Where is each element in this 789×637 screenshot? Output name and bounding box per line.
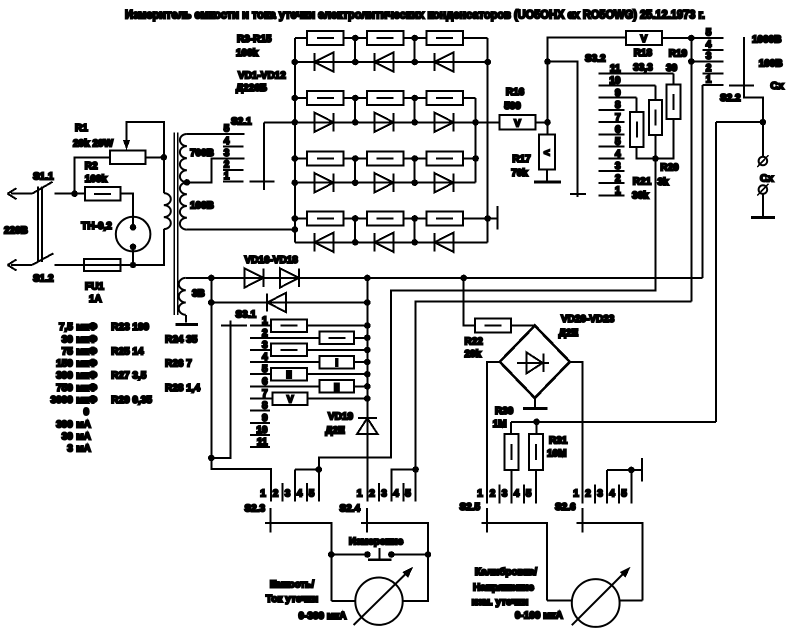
svg-text:S2.1: S2.1 (231, 117, 252, 128)
meter PA1 0-300uA (355, 578, 402, 625)
S3.1 position 8 contact (250, 410, 270, 412)
S3.1 wiper (211, 321, 230, 458)
S3.2 position 7 contact (599, 121, 625, 123)
svg-text:5: 5 (526, 489, 532, 500)
svg-text:мкФ: мкФ (76, 371, 97, 382)
resistor R29 (position 7) (273, 392, 308, 405)
svg-text:20k 20W: 20k 20W (73, 139, 114, 150)
junction 700V/100V tap (184, 179, 191, 186)
wire bridge left to S2.5 (487, 362, 500, 504)
row4 output terminal (488, 217, 498, 219)
switch S1.1 arrow (11, 193, 32, 195)
svg-text:R20: R20 (660, 163, 679, 174)
diode row2 #1 (315, 113, 334, 132)
diode row2 #3 (435, 113, 454, 132)
HV ladder right bus (487, 38, 489, 242)
svg-text:7,5: 7,5 (59, 322, 73, 333)
ground below 3V winding (175, 323, 197, 326)
svg-text:150: 150 (56, 359, 73, 370)
svg-text:2: 2 (490, 489, 496, 500)
wire 700V tap to S2.1 position 3 (187, 159, 245, 183)
S2.1 position 2 contact (223, 169, 243, 171)
wire node B up to R18 meter box (548, 37, 626, 122)
svg-text:изм. утечки: изм. утечки (472, 597, 529, 608)
S3.1 position 11 contact (250, 446, 270, 448)
meter PA2 0-100uA (572, 579, 620, 627)
svg-text:500: 500 (504, 101, 521, 112)
svg-text:5: 5 (615, 137, 621, 148)
S3.1 position 9 contact (250, 422, 270, 424)
svg-text:4: 4 (609, 489, 615, 500)
resistor row4 #2 (367, 212, 403, 226)
wire R17 to ground (546, 170, 548, 181)
R1 wiper arrow (127, 122, 164, 157)
svg-text:0-300 мкА: 0-300 мкА (299, 611, 347, 622)
right bus junctions (484, 59, 491, 66)
bridge VD20-VD23 (500, 326, 570, 398)
S2.6 pos3-pos5 connector (607, 469, 642, 471)
S3.2 position 9 contact (599, 97, 637, 99)
wire S2.3 wiper to meter1 (331, 600, 355, 602)
svg-text:S3.2: S3.2 (585, 54, 606, 65)
svg-text:2: 2 (262, 328, 268, 339)
S3.2 position 11 contact (599, 72, 674, 74)
svg-text:9: 9 (615, 88, 621, 99)
svg-text:Ток утечки: Ток утечки (266, 594, 318, 605)
terminal below bridge (523, 407, 548, 410)
svg-text:VD16-VD18: VD16-VD18 (245, 255, 299, 266)
S3.2 wiper bar (570, 193, 586, 195)
svg-text:75: 75 (62, 346, 74, 357)
svg-text:8: 8 (262, 401, 268, 412)
resistor row2 #1 (307, 91, 343, 105)
wire R2 to neon lamp (120, 194, 133, 228)
svg-text:700В: 700В (190, 148, 214, 159)
S1 mechanical link (37, 187, 39, 263)
diode VD19 (358, 417, 377, 419)
left measure bus (211, 278, 271, 502)
svg-text:V: V (287, 395, 294, 406)
wire 100V winding to ladder (187, 229, 295, 231)
S2.4 wiper (361, 523, 428, 555)
svg-text:мА: мА (76, 431, 91, 442)
svg-text:<: < (544, 148, 550, 159)
svg-text:4: 4 (262, 352, 268, 363)
diode VD17 (280, 268, 299, 287)
svg-text:33,3: 33,3 (633, 63, 653, 74)
S3.2 position 8 contact (599, 109, 625, 111)
S3.2 position 2 contact (599, 182, 625, 184)
resistor row1 #3 (427, 31, 463, 45)
row2 right link (475, 98, 477, 183)
diode row1 #1 (315, 52, 334, 71)
row1 resistor chain wire (295, 37, 307, 39)
S3.1 position 7 contact (250, 398, 273, 400)
svg-text:R19: R19 (669, 49, 688, 60)
wire position 3 to bus (307, 349, 368, 351)
wire S2.6 wiper to meter2 right (620, 600, 643, 602)
junction 3V/VD16 (208, 275, 215, 282)
svg-text:3: 3 (597, 489, 603, 500)
wire position 7 to bus (308, 398, 368, 400)
wire Cx node to bridge line (716, 121, 763, 123)
S3.2 position 5 contact (599, 146, 625, 148)
svg-text:3000: 3000 (51, 395, 74, 406)
resistor R22 (464, 278, 475, 326)
svg-text:мА: мА (76, 419, 91, 430)
svg-text:S2.2: S2.2 (720, 93, 741, 104)
svg-text:мкФ: мкФ (76, 346, 97, 357)
S3.1 position 3 contact (250, 349, 271, 351)
transformer core (174, 133, 177, 316)
svg-text:II: II (286, 370, 292, 381)
resistor row1 #1 (307, 31, 343, 45)
wire R21 bottom (637, 147, 656, 159)
S2.5 wiper (481, 523, 547, 601)
diode row3 #2 (375, 173, 394, 192)
svg-text:Измерение: Измерение (349, 537, 404, 548)
row1 junction links (354, 38, 356, 62)
svg-text:мкФ: мкФ (76, 359, 97, 370)
svg-text:1: 1 (615, 186, 621, 197)
svg-text:S1.2: S1.2 (33, 274, 54, 285)
svg-text:100k: 100k (85, 174, 108, 185)
junction R1 right (161, 154, 168, 161)
S2.2 position 1 contact (703, 84, 724, 86)
junction R19/R20/R21 (652, 155, 659, 162)
left bus junctions (292, 59, 299, 66)
svg-text:R18: R18 (634, 48, 653, 59)
node B junction (544, 119, 551, 126)
wire position 2 to bus (354, 337, 368, 339)
wire V-node to S2.4 position5 (416, 301, 692, 501)
wire position 1 to bus (307, 325, 368, 327)
svg-text:10: 10 (609, 76, 621, 87)
row4 junction links (354, 218, 356, 242)
svg-text:Емкость/: Емкость/ (270, 580, 315, 591)
transformer winding 700V (180, 134, 187, 182)
resistor R16 (500, 115, 536, 129)
svg-text:5: 5 (309, 489, 315, 500)
svg-text:0-100 мкА: 0-100 мкА (515, 611, 563, 622)
diode row1 #3 (435, 52, 454, 71)
svg-text:VD1-VD12: VD1-VD12 (238, 71, 286, 82)
switch S1.2 blade (32, 253, 54, 265)
svg-text:2: 2 (273, 489, 279, 500)
diode row4 #2 (375, 233, 394, 252)
wire R19 bottom (655, 119, 673, 159)
resistor R19 (672, 73, 674, 84)
junction S2.2 position 3 (688, 58, 695, 65)
svg-text:R29 0,35: R29 0,35 (111, 395, 152, 406)
wire R18 output down (690, 38, 692, 301)
S2.1 position 1 contact (223, 181, 243, 183)
svg-text:Cx: Cx (760, 173, 774, 185)
svg-text:220В: 220В (4, 226, 28, 237)
svg-text:8: 8 (615, 100, 621, 111)
svg-text:3: 3 (285, 489, 291, 500)
junction Cx node (760, 119, 767, 126)
S2.6 wiper (577, 523, 643, 601)
svg-text:FU1: FU1 (85, 282, 104, 293)
resistor row4 #3 (427, 212, 463, 226)
svg-text:100В: 100В (759, 58, 783, 69)
svg-text:V: V (514, 118, 521, 129)
svg-text:36k: 36k (632, 191, 649, 202)
resistor R25 (position 3) (271, 344, 307, 357)
Cx terminal top (762, 122, 764, 157)
wire R1 left leg (75, 157, 111, 193)
svg-text:300: 300 (56, 419, 73, 430)
S2.4 contacts (378, 483, 380, 502)
bridge inner diode (517, 362, 549, 364)
node line R30/R31 (511, 421, 716, 423)
resistor row2 #2 (367, 91, 403, 105)
VD18 line (211, 302, 367, 304)
HV ladder left bus (294, 38, 296, 242)
wire R18 to S2.2 position 5 (662, 37, 724, 39)
wire bridge bottom (534, 398, 536, 407)
svg-text:3В: 3В (192, 289, 205, 300)
svg-text:1: 1 (260, 489, 266, 500)
Cx terminal bottom (759, 185, 768, 194)
resistor row4 #1 (307, 212, 343, 226)
resistor R24 (position 2) (320, 332, 354, 345)
svg-text:2: 2 (585, 489, 591, 500)
svg-text:2: 2 (615, 173, 621, 184)
svg-text:II: II (334, 382, 340, 393)
svg-text:Измеритель емкости и тока утеч: Измеритель емкости и тока утечки электро… (125, 10, 705, 22)
svg-text:9: 9 (262, 413, 268, 424)
resistor R31 (536, 422, 538, 434)
svg-text:0: 0 (83, 407, 89, 418)
wire R22 to bridge (511, 325, 535, 327)
svg-text:3: 3 (224, 148, 230, 159)
svg-text:4: 4 (706, 39, 712, 50)
svg-text:R23 190: R23 190 (111, 322, 149, 333)
svg-text:7: 7 (615, 112, 621, 123)
svg-text:S1.1: S1.1 (33, 172, 54, 183)
svg-text:R3-R15: R3-R15 (237, 34, 272, 45)
svg-text:3: 3 (67, 444, 73, 455)
S2.5 contacts (498, 485, 500, 504)
S2.4 position3 connector (392, 470, 416, 502)
S3.1 position 6 contact (250, 385, 320, 387)
svg-text:Cx: Cx (770, 80, 784, 92)
svg-text:4: 4 (514, 489, 520, 500)
diode VD16 (244, 268, 263, 287)
S2.3 pos3-pos5 connector (295, 469, 319, 471)
svg-text:S2.4: S2.4 (340, 504, 361, 515)
wire to S3.2 wiper (548, 62, 578, 197)
svg-text:1: 1 (357, 489, 363, 500)
S2.1 wiper (263, 122, 265, 190)
svg-text:5: 5 (621, 489, 627, 500)
wire position 4 to bus (354, 361, 368, 363)
svg-text:I: I (335, 358, 338, 369)
svg-text:4: 4 (297, 489, 303, 500)
svg-text:1M: 1M (493, 419, 507, 430)
S2.2 position 4 contact (703, 49, 724, 51)
svg-text:70k: 70k (511, 168, 528, 179)
resistor R27 (position 5) (271, 368, 307, 381)
S3.2 position 6 contact (599, 133, 625, 135)
svg-text:R17: R17 (512, 154, 531, 165)
wire S1.2 to transformer primary (55, 229, 164, 265)
diode row4 #3 (435, 233, 454, 252)
resistor R1 (110, 151, 145, 165)
resistor row3 #1 (307, 152, 343, 166)
resistor row3 #3 (427, 152, 463, 166)
S3.2 position 4 contact (599, 158, 625, 160)
svg-text:10M: 10M (547, 449, 566, 460)
resistor R17 (547, 122, 549, 134)
svg-text:Калибровка/: Калибровка/ (475, 566, 537, 578)
row2 junction links (354, 98, 356, 122)
S2.1 position 4 contact (223, 145, 243, 147)
svg-text:6: 6 (262, 376, 268, 387)
S3.2 position 10 contact (599, 85, 656, 87)
S2.2 position 2 contact (703, 73, 724, 75)
junction S2.4 pos3/pos5 (412, 466, 419, 473)
S3.2 position 1 contact (599, 194, 625, 196)
wire neon lamp to fuse line (132, 247, 134, 265)
svg-text:S2.5: S2.5 (460, 502, 481, 513)
wire R20 node down and left (319, 135, 656, 502)
fuse FU1 (84, 259, 120, 271)
svg-text:300: 300 (56, 371, 73, 382)
resistor row2 #3 (427, 91, 463, 105)
svg-text:1A: 1A (89, 294, 102, 305)
wire S2.5 wiper to meter2 (547, 600, 572, 602)
S2.3 contacts (282, 483, 284, 502)
svg-text:100В: 100В (190, 201, 214, 212)
S3.1 position 5 contact (250, 373, 271, 375)
resistor R26 (position 4) (320, 356, 354, 369)
svg-text:3: 3 (615, 161, 621, 172)
svg-text:мкФ: мкФ (76, 334, 97, 345)
junction S3.1 wiper tap (208, 455, 215, 462)
junction R31 top (533, 419, 540, 426)
wire S1.1 to R2 node (55, 193, 85, 195)
svg-text:мкФ: мкФ (76, 322, 97, 333)
svg-text:Д2Е: Д2Е (559, 328, 579, 339)
resistor row1 #2 (367, 31, 403, 45)
svg-text:R27 3,5: R27 3,5 (111, 371, 146, 382)
svg-text:R1: R1 (75, 123, 88, 134)
resistor R23 (position 1) (271, 319, 307, 332)
svg-text:5: 5 (262, 364, 268, 375)
row3 resistor chain wire (295, 158, 307, 160)
node A junction R2/S1.1/R1 (71, 190, 78, 197)
row3 diode line (295, 182, 476, 184)
svg-text:1: 1 (573, 489, 579, 500)
junction R18 output (688, 35, 695, 42)
svg-text:3: 3 (262, 340, 268, 351)
svg-text:4: 4 (393, 489, 399, 500)
svg-text:мА: мА (76, 444, 91, 455)
svg-text:Напряжение: Напряжение (473, 583, 534, 594)
svg-text:V: V (640, 34, 647, 45)
junction VD18 left (208, 299, 215, 306)
svg-text:2: 2 (369, 489, 375, 500)
S2.3 wiper (265, 523, 332, 601)
diode row3 #1 (315, 173, 334, 192)
svg-text:VD19: VD19 (328, 412, 353, 423)
wire 700V top to S2.1 position 5 (187, 133, 244, 135)
svg-text:30: 30 (62, 431, 74, 442)
svg-text:5: 5 (224, 124, 230, 135)
svg-text:R24 35: R24 35 (165, 334, 198, 345)
svg-text:20k: 20k (465, 349, 482, 360)
S3.2 position 3 contact (599, 170, 625, 172)
wire pushbutton to meter1 right (403, 555, 428, 602)
svg-text:1000В: 1000В (752, 35, 781, 46)
resistor R28 (position 6) (320, 380, 354, 393)
svg-text:1: 1 (706, 75, 712, 86)
neon lamp TH-0,2 (116, 217, 151, 252)
junction fuse line (130, 262, 137, 269)
resistor R21 (636, 98, 638, 113)
pushbutton actuator (379, 548, 381, 560)
S3.1 position 4 contact (250, 361, 320, 363)
S2.6 output terminal (641, 458, 643, 482)
svg-text:2: 2 (706, 63, 712, 74)
junction S3.2 branch (544, 58, 551, 65)
svg-text:2: 2 (224, 160, 230, 171)
S2.2 wiper (744, 37, 763, 122)
wire position 5 to bus (307, 373, 368, 375)
svg-text:3k: 3k (658, 177, 670, 188)
svg-text:3: 3 (381, 489, 387, 500)
svg-text:R28 1,4: R28 1,4 (165, 383, 200, 394)
resistor R2 (85, 187, 121, 201)
meter box R18 (626, 31, 662, 45)
ground below Cx terminal (751, 216, 775, 219)
row4 resistor chain wire (295, 217, 307, 219)
resistor R30 (510, 422, 512, 434)
resistor row3 #2 (367, 152, 403, 166)
row2 resistor chain wire (295, 97, 307, 99)
svg-text:R25 14: R25 14 (111, 346, 144, 357)
row3 junction links (354, 159, 356, 183)
svg-text:R30: R30 (495, 406, 514, 417)
svg-text:R16: R16 (506, 87, 525, 98)
S3.1 position 1 contact (250, 325, 271, 327)
svg-text:5: 5 (405, 489, 411, 500)
transformer winding 100V (180, 182, 187, 229)
wire R1 right leg (145, 156, 164, 158)
transformer primary winding (163, 157, 165, 193)
row1 diode line (295, 61, 488, 63)
svg-text:R21: R21 (633, 177, 652, 188)
S2.6 contacts (594, 485, 596, 504)
svg-text:10: 10 (256, 425, 268, 436)
svg-text:Д226Б: Д226Б (236, 83, 267, 94)
svg-text:11: 11 (610, 64, 621, 75)
resistor R20 (654, 86, 656, 100)
transformer winding 3V (179, 278, 186, 315)
svg-text:R22: R22 (465, 337, 484, 348)
diode row2 #2 (375, 113, 394, 132)
svg-text:30: 30 (62, 334, 74, 345)
svg-text:1: 1 (477, 489, 483, 500)
ground below R17 (534, 181, 561, 184)
diode row1 #2 (375, 52, 394, 71)
row2 diode line (264, 121, 499, 123)
svg-text:7: 7 (262, 389, 268, 400)
svg-text:3: 3 (706, 51, 712, 62)
